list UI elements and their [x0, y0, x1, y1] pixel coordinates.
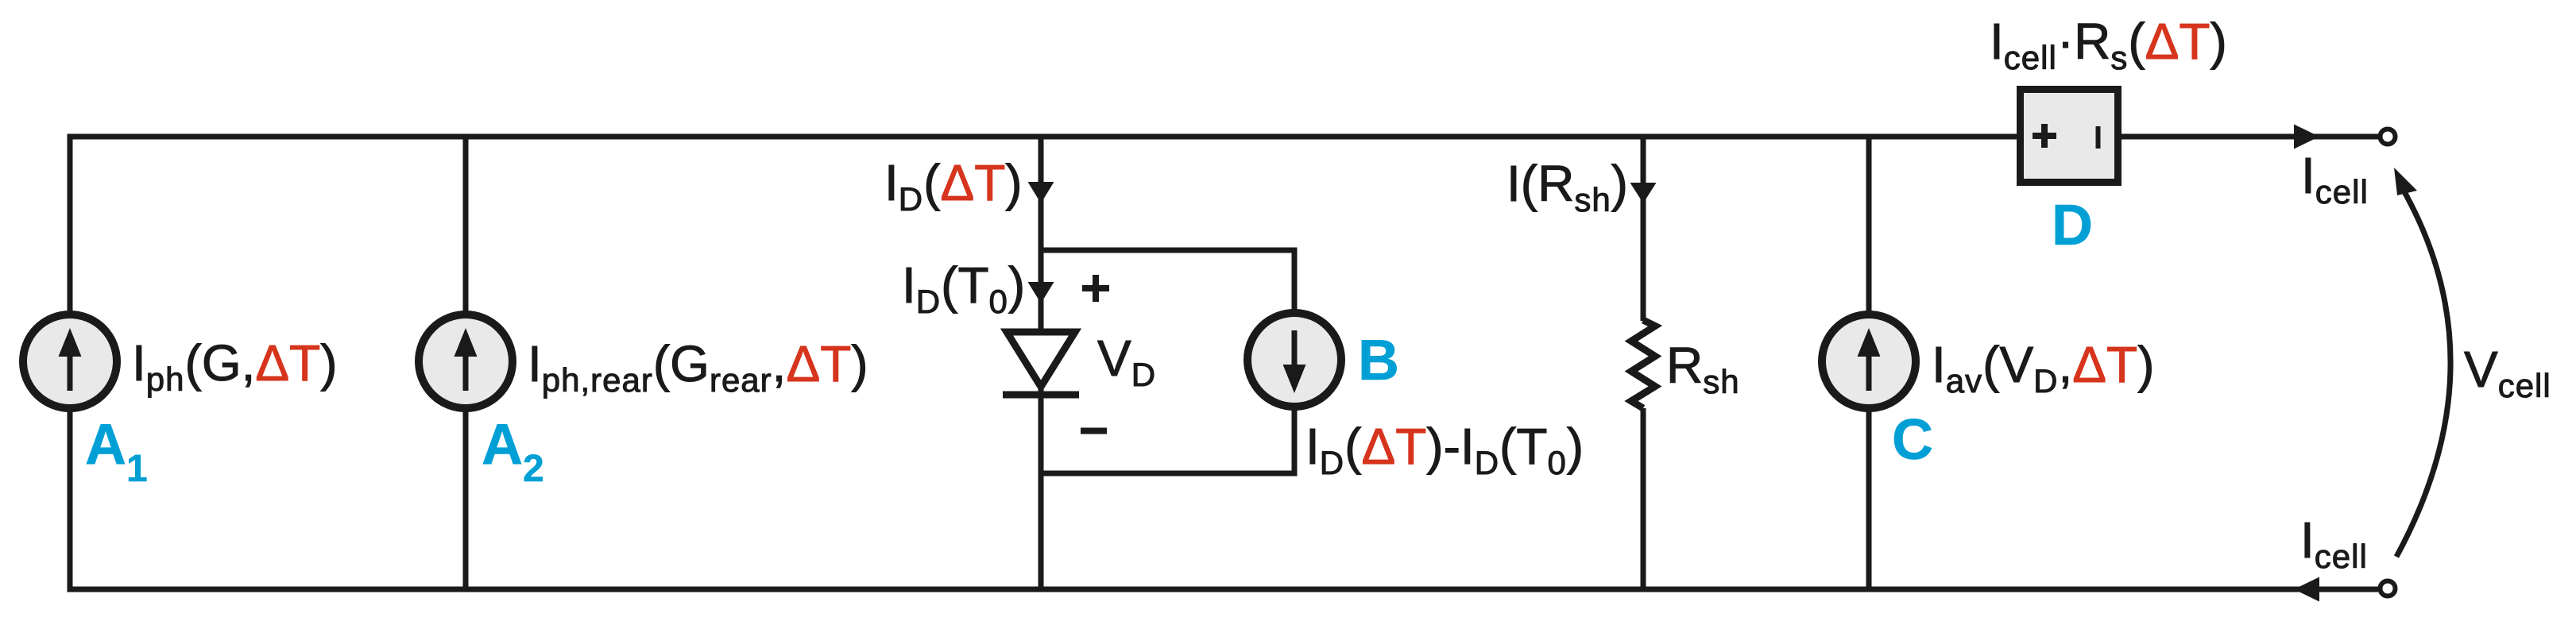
wire branch A2	[463, 137, 469, 589]
diode D1 triangle	[1007, 332, 1075, 387]
current source B	[1247, 313, 1341, 407]
wire branch C	[1866, 137, 1872, 589]
minus sign diode	[1081, 428, 1107, 434]
terminal top	[2381, 129, 2396, 145]
wire inner loop to B	[1041, 250, 1294, 473]
arrowhead ID(dT) on diode branch	[1028, 182, 1054, 203]
plus sign inside D	[2033, 133, 2056, 139]
minus bar inside D	[2096, 126, 2101, 149]
voltage source box D	[2021, 90, 2118, 183]
arrowhead ID(T0) on diode branch	[1028, 282, 1054, 303]
svg-text:ID(ΔT)-ID(T0): ID(ΔT)-ID(T0)	[1305, 418, 1584, 481]
arrowhead I(Rsh)	[1630, 183, 1657, 203]
terminal bottom	[2381, 581, 2396, 596]
Vcell arc arrowhead	[2394, 168, 2417, 195]
arrowhead Icell bottom wire	[2294, 577, 2319, 602]
plus sign diode	[1082, 285, 1109, 291]
wire branch diode	[1039, 137, 1044, 589]
current source A2	[419, 314, 512, 408]
Vcell arc	[2396, 189, 2450, 557]
svg-text:C: C	[1892, 408, 1933, 472]
wire branch Rsh upper	[1641, 137, 1646, 321]
current source A1	[23, 314, 117, 408]
arrowhead Icell top wire	[2294, 125, 2319, 149]
diode cathode bar	[1003, 392, 1079, 399]
svg-text:B: B	[1358, 329, 1399, 392]
wire branch Rsh lower	[1641, 408, 1646, 589]
wire main outer loop (top, left, bottom rails)	[70, 137, 2378, 589]
svg-text:D: D	[2052, 194, 2093, 257]
resistor Rsh zigzag	[1631, 320, 1655, 408]
current source C	[1822, 314, 1916, 408]
